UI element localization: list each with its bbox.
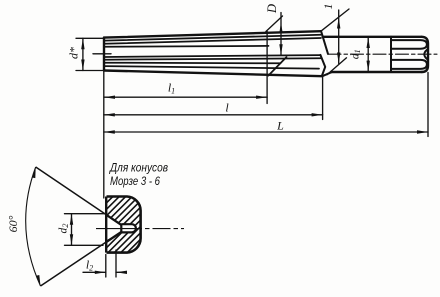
svg-text:d*: d* xyxy=(67,47,81,59)
svg-text:d1: d1 xyxy=(350,49,363,59)
svg-text:l2: l2 xyxy=(86,258,93,273)
svg-text:1: 1 xyxy=(321,4,335,10)
svg-text:Морзе 3 - 6: Морзе 3 - 6 xyxy=(110,174,160,188)
svg-text:Для конусов: Для конусов xyxy=(108,160,168,174)
svg-text:L: L xyxy=(276,119,284,133)
svg-text:l: l xyxy=(225,101,229,115)
svg-text:D: D xyxy=(265,4,279,14)
svg-text:l1: l1 xyxy=(168,81,175,96)
svg-text:60°: 60° xyxy=(6,215,20,232)
svg-text:d2: d2 xyxy=(58,223,71,234)
